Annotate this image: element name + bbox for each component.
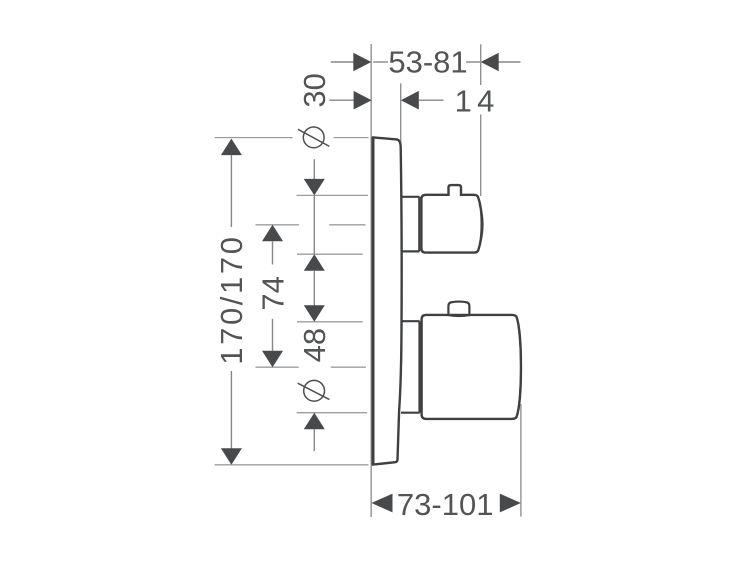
handle U2 body bbox=[422, 315, 521, 419]
wire ext handle2 top bbox=[297, 321, 363, 323]
dimension 30 arrows bbox=[313, 159, 315, 179]
svg-text:4: 4 bbox=[477, 83, 494, 118]
dimension 73-101 bbox=[372, 494, 393, 513]
dimension 53-81 bbox=[331, 61, 521, 63]
wire ext handle1 center bbox=[255, 224, 299, 226]
wire extension right of 53-81 bbox=[480, 44, 482, 85]
dimension 14 bbox=[329, 99, 443, 101]
svg-text:48: 48 bbox=[297, 328, 332, 362]
wire ext handle1 bottom bbox=[297, 253, 363, 255]
wire ext handle2 center bbox=[255, 366, 298, 368]
svg-text:30: 30 bbox=[297, 73, 332, 107]
wire extension right of 14 bbox=[400, 83, 402, 155]
handle U2 neck bbox=[401, 321, 420, 413]
wire ext plate bottom bbox=[215, 464, 369, 466]
handle U2 front face arc bbox=[518, 325, 521, 409]
dimension 74 bbox=[262, 225, 283, 242]
handle U2 knob bbox=[448, 302, 469, 316]
handle U1 neck bbox=[401, 197, 420, 252]
handle U1 front face arc bbox=[480, 204, 483, 245]
diameter symbol top bbox=[298, 127, 329, 148]
svg-text:1: 1 bbox=[455, 83, 472, 118]
svg-text:73-101: 73-101 bbox=[397, 487, 494, 522]
dimension 170/170 bbox=[221, 139, 242, 156]
handle U1 body with tab bbox=[421, 185, 481, 253]
diameter symbol bottom bbox=[298, 380, 330, 401]
svg-text:170/170: 170/170 bbox=[214, 234, 249, 364]
wire ext plate top bbox=[215, 137, 293, 139]
dimension 48 arrows bbox=[304, 305, 325, 322]
wire wall extension line bbox=[370, 44, 372, 517]
svg-text:53-81: 53-81 bbox=[388, 45, 467, 80]
escutcheon plate bbox=[373, 137, 402, 464]
wire extension right of 73-101 bbox=[520, 404, 522, 517]
svg-text:74: 74 bbox=[255, 276, 290, 310]
wire ext handle1 top bbox=[297, 194, 369, 196]
wire ext handle2 bottom bbox=[297, 412, 367, 414]
